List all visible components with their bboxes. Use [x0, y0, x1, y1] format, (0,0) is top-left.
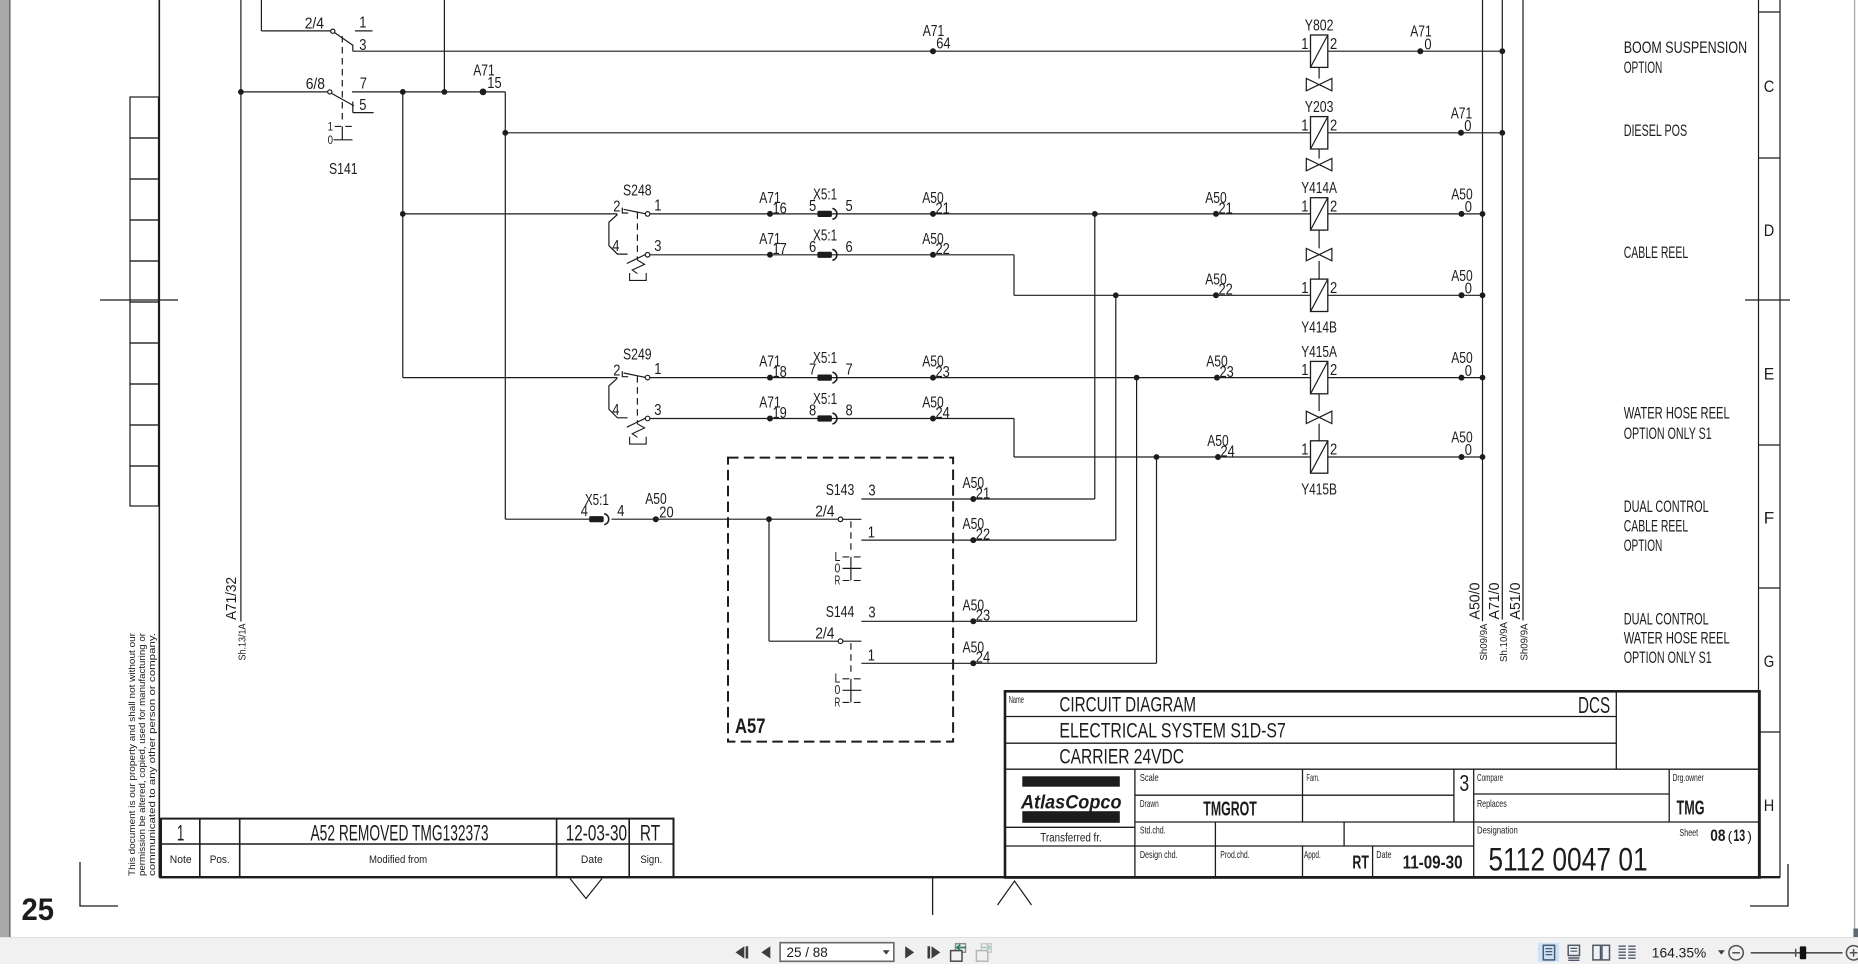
svg-text:22: 22 [976, 527, 990, 544]
bus A51/0 [1522, 0, 1524, 620]
svg-text:19: 19 [773, 405, 787, 422]
solenoid coil Y415A [1301, 344, 1337, 394]
svg-text:RT: RT [1352, 851, 1369, 872]
connector X5:1 pin 5 [809, 187, 853, 220]
svg-text:ELECTRICAL SYSTEM S1D-S7: ELECTRICAL SYSTEM S1D-S7 [1059, 719, 1285, 742]
label A50:23 [922, 354, 950, 381]
svg-text:Date: Date [581, 854, 603, 866]
svg-text:11-09-30: 11-09-30 [1403, 851, 1463, 872]
label A71:19 [759, 395, 787, 422]
svg-text:1: 1 [1301, 442, 1308, 459]
svg-text:CARRIER 24VDC: CARRIER 24VDC [1059, 745, 1184, 768]
svg-text:X5:1: X5:1 [813, 391, 837, 408]
svg-text:25 / 88: 25 / 88 [787, 945, 828, 960]
connector X5:1 pin 7 [809, 350, 853, 383]
svg-text:S144: S144 [826, 604, 855, 621]
svg-text:Y414A: Y414A [1301, 180, 1337, 197]
svg-text:2/4: 2/4 [305, 15, 324, 32]
svg-text:DUAL CONTROL: DUAL CONTROL [1624, 609, 1709, 628]
switch S141 pole 2/4 [305, 15, 373, 54]
svg-text:Sh.13/1A: Sh.13/1A [237, 624, 249, 661]
revision table [161, 819, 674, 878]
view-mode continuous facing [1619, 946, 1636, 958]
label A50:23 [963, 597, 991, 624]
svg-text:8: 8 [846, 403, 853, 420]
svg-text:Sh.10/9A: Sh.10/9A [1498, 622, 1510, 662]
svg-text:S141: S141 [329, 161, 358, 178]
svg-text:2: 2 [1330, 199, 1337, 216]
svg-text:164.35%: 164.35% [1652, 945, 1706, 960]
svg-text:1: 1 [654, 361, 661, 378]
valve symbol under Y203 [1318, 149, 1320, 159]
solenoid coil Y414A [1301, 180, 1337, 230]
label A50:21 [922, 190, 950, 217]
svg-text:1: 1 [868, 525, 875, 542]
wire: riser to S144 [768, 519, 770, 641]
svg-text:24: 24 [1221, 443, 1235, 460]
bottom-left corner trim mark [80, 862, 118, 906]
svg-text:8: 8 [809, 403, 816, 420]
svg-text:1: 1 [1301, 199, 1308, 216]
svg-text:CABLE REEL: CABLE REEL [1624, 243, 1689, 262]
view-mode facing [1593, 945, 1610, 960]
wire: S144 throw 3 out [861, 620, 1136, 622]
toolbar last-page button [928, 946, 941, 958]
svg-text:3: 3 [868, 483, 875, 500]
svg-text:24: 24 [976, 650, 990, 667]
svg-text:18: 18 [773, 364, 787, 381]
bus A50/0 [1482, 0, 1484, 621]
connector X5:1 pin 8 [809, 391, 853, 424]
svg-text:22: 22 [936, 241, 950, 258]
svg-text:1: 1 [1301, 117, 1308, 134]
label A50:23 [1206, 354, 1234, 381]
svg-text:22: 22 [1219, 282, 1233, 299]
view-mode single page (active) [1538, 943, 1559, 962]
svg-text:3: 3 [868, 605, 875, 622]
svg-text:1: 1 [654, 197, 661, 214]
svg-text:OPTION: OPTION [1624, 58, 1663, 77]
svg-text:(: ( [1728, 828, 1733, 844]
svg-text:G: G [1764, 652, 1775, 671]
bottom-right corner trim mark [1750, 864, 1788, 906]
svg-text:WATER HOSE REEL: WATER HOSE REEL [1624, 403, 1730, 422]
svg-text:CABLE REEL: CABLE REEL [1624, 516, 1689, 535]
fold mark caret (below title block) [998, 881, 1032, 905]
svg-text:2/4: 2/4 [815, 503, 834, 520]
solenoid coil Y802 [1301, 17, 1337, 67]
svg-text:6: 6 [846, 239, 853, 256]
svg-text:F: F [1764, 509, 1775, 528]
row letters C-H [1764, 77, 1775, 815]
svg-text:S143: S143 [826, 482, 855, 499]
property/permission fine print (rotated) [127, 633, 157, 876]
toolbar zoom-in [1846, 946, 1858, 960]
connector A50:0 [1459, 375, 1465, 381]
label A50:22 [963, 516, 991, 543]
svg-text:): ) [1747, 828, 1752, 844]
label A50:24 [1207, 433, 1235, 460]
svg-text:Y802: Y802 [1305, 17, 1334, 34]
svg-text:R: R [835, 694, 841, 709]
svg-text:Sign.: Sign. [640, 854, 662, 866]
svg-text:Transferred fr.: Transferred fr. [1040, 833, 1102, 845]
svg-text:0: 0 [328, 133, 334, 147]
viewer bottom toolbar [0, 937, 1858, 964]
wire: vertical from top to S141 pole1 [260, 0, 262, 31]
svg-text:2: 2 [613, 199, 620, 216]
svg-text:Compare: Compare [1477, 772, 1503, 784]
svg-text:2/4: 2/4 [815, 625, 834, 642]
svg-text:5: 5 [809, 198, 816, 215]
svg-text:4: 4 [581, 503, 588, 520]
svg-text:BOOM SUSPENSION: BOOM SUSPENSION [1624, 38, 1747, 57]
bus A71/0 [1501, 0, 1503, 620]
solenoid coil Y415B [1301, 441, 1337, 499]
svg-text:64: 64 [936, 36, 950, 53]
svg-text:This document is our property: This document is our property and shall … [127, 633, 137, 876]
wire: S143 throw 1 out [861, 539, 1115, 541]
view-mode continuous [1568, 945, 1579, 960]
svg-text:communicated to any other pers: communicated to any other person or comp… [147, 633, 157, 876]
svg-text:Sheet: Sheet [1679, 827, 1698, 839]
svg-text:R: R [835, 572, 841, 587]
svg-text:0: 0 [1424, 36, 1431, 53]
bottom centerline tick [932, 877, 934, 915]
svg-text:E: E [1764, 365, 1775, 384]
svg-text:TMG: TMG [1677, 797, 1705, 820]
connector A50:0 [1459, 211, 1465, 217]
connector A50 pin 20 [653, 516, 659, 522]
svg-text:2: 2 [613, 362, 620, 379]
svg-text:A50/0: A50/0 [1467, 583, 1483, 620]
svg-text:0: 0 [1464, 118, 1471, 135]
svg-text:Sh09/9A: Sh09/9A [1478, 624, 1490, 661]
svg-text:WATER HOSE REEL: WATER HOSE REEL [1624, 629, 1730, 648]
svg-text:A71/0: A71/0 [1487, 583, 1503, 620]
valve symbol between Y414A/Y414B [1318, 230, 1320, 248]
svg-text:Appd.: Appd. [1304, 849, 1321, 861]
S141 position indicator 1/0 [328, 119, 353, 147]
svg-text:3: 3 [654, 402, 661, 419]
wire: vertical bus x241 (to A71/32 off-sheet) [240, 0, 242, 622]
svg-text:Modified from: Modified from [369, 854, 427, 866]
svg-text:Drg.owner: Drg.owner [1673, 772, 1705, 784]
svg-text:DCS: DCS [1578, 692, 1610, 718]
svg-text:OPTION ONLY S1: OPTION ONLY S1 [1624, 424, 1712, 443]
label A50:22 [1205, 271, 1233, 298]
svg-text:23: 23 [1220, 364, 1234, 381]
svg-text:Name: Name [1009, 694, 1024, 706]
svg-text:AtlasCopco: AtlasCopco [1020, 792, 1121, 814]
toolbar previous-view icon [951, 944, 967, 961]
toolbar next-page button [905, 946, 914, 958]
svg-text:3: 3 [654, 238, 661, 255]
wire: S141 throw 3 to Y802 row [353, 50, 1503, 52]
svg-text:DUAL CONTROL: DUAL CONTROL [1624, 497, 1709, 516]
connector X5:1 pin 4 [581, 492, 625, 525]
svg-text:1: 1 [868, 648, 875, 665]
svg-text:2: 2 [1330, 280, 1337, 297]
svg-text:S249: S249 [623, 346, 652, 363]
svg-text:A52 REMOVED TMG132373: A52 REMOVED TMG132373 [311, 820, 489, 845]
right centerline mark [1745, 299, 1790, 301]
svg-text:5: 5 [359, 97, 366, 114]
svg-text:21: 21 [936, 200, 950, 217]
svg-text:7: 7 [846, 362, 853, 379]
wire: vertical from top to node at y92 [443, 0, 445, 92]
label A50:24 [922, 395, 950, 422]
svg-text:0: 0 [1465, 199, 1472, 216]
wire: S249-3 row [650, 418, 1014, 420]
svg-text:OPTION: OPTION [1624, 536, 1663, 555]
svg-text:5112 0047 01: 5112 0047 01 [1488, 842, 1647, 878]
svg-text:Y415B: Y415B [1301, 481, 1337, 498]
svg-text:OPTION ONLY S1: OPTION ONLY S1 [1624, 648, 1712, 667]
svg-text:X5:1: X5:1 [813, 227, 837, 244]
wire: down from A71:15 node to X5:1-4 row [504, 92, 506, 519]
switch S141 pole 6/8 [306, 36, 374, 124]
svg-text:A57: A57 [735, 714, 766, 738]
svg-text:15: 15 [487, 75, 501, 92]
svg-text:7: 7 [809, 362, 816, 379]
viewer left gray strip [0, 0, 9, 937]
switch S248 [609, 183, 662, 281]
svg-text:1: 1 [1301, 362, 1308, 379]
right row-letter column [1759, 0, 1781, 878]
svg-text:Pos.: Pos. [210, 854, 230, 866]
svg-text:1: 1 [359, 15, 366, 32]
svg-text:DIESEL POS: DIESEL POS [1624, 121, 1688, 140]
connector A71 pin 64 [930, 48, 936, 54]
connector A50:0 [1459, 292, 1465, 298]
toolbar prev-page button [761, 946, 770, 958]
toolbar first-page button [736, 946, 749, 958]
wire: feed into A57 box [612, 518, 839, 520]
connector A71:0 (Y802) [1417, 48, 1423, 54]
svg-text:Y415A: Y415A [1301, 344, 1337, 361]
svg-text:13: 13 [1733, 827, 1745, 845]
svg-text:2: 2 [1330, 442, 1337, 459]
switch S143 [815, 482, 875, 587]
connector X5:1 pin 6 [809, 227, 853, 260]
left centerline mark [100, 299, 178, 301]
svg-text:Std.chd.: Std.chd. [1140, 824, 1166, 836]
svg-text:Designation: Designation [1477, 825, 1518, 837]
toolbar zoom slider [1751, 946, 1843, 959]
svg-text:CIRCUIT DIAGRAM: CIRCUIT DIAGRAM [1059, 694, 1196, 717]
unit box A57 (dashed) [728, 458, 953, 742]
fold mark V (bottom) [570, 879, 602, 899]
label A50:22 [922, 231, 950, 258]
svg-text:permission be altered, copied,: permission be altered, copied, used for … [137, 633, 147, 876]
svg-text:Drawn: Drawn [1140, 798, 1159, 810]
svg-text:Fam.: Fam. [1306, 772, 1319, 784]
svg-text:2: 2 [1330, 117, 1337, 134]
wire: S248-3 row [650, 254, 1014, 256]
label A50:24 [963, 639, 991, 666]
svg-text:S248: S248 [623, 183, 652, 200]
label A50:21 [963, 475, 991, 502]
svg-text:7: 7 [360, 75, 367, 92]
drawing frame left border [158, 0, 160, 878]
wire: S144 throw 1 out [861, 662, 1156, 664]
svg-text:X5:1: X5:1 [813, 350, 837, 367]
frame fold-scale ladder (left edge) [130, 97, 159, 506]
svg-text:25: 25 [22, 891, 55, 927]
svg-text:Sh09/9A: Sh09/9A [1519, 624, 1531, 661]
wire: to S248 terminal 2 [403, 213, 618, 215]
svg-text:08: 08 [1710, 827, 1725, 845]
viewer right scrollbar edge [1854, 0, 1856, 937]
svg-text:24: 24 [936, 405, 950, 422]
svg-text:1: 1 [1301, 36, 1308, 53]
solenoid coil Y203 [1301, 99, 1337, 149]
svg-text:21: 21 [976, 485, 990, 502]
svg-text:C: C [1764, 77, 1775, 96]
solenoid coil Y414B [1301, 279, 1337, 337]
svg-text:23: 23 [936, 364, 950, 381]
svg-text:H: H [1764, 796, 1775, 815]
svg-text:0: 0 [1465, 442, 1472, 459]
svg-text:RT: RT [640, 820, 660, 845]
svg-text:6: 6 [809, 239, 816, 256]
toolbar page box [780, 943, 894, 962]
svg-text:Scale: Scale [1140, 772, 1159, 784]
svg-text:2: 2 [1330, 362, 1337, 379]
svg-text:Replaces: Replaces [1477, 798, 1507, 810]
Atlas Copco logo [1020, 776, 1121, 823]
label A71:18 [759, 354, 787, 381]
function description texts [1624, 38, 1747, 667]
svg-text:Note: Note [170, 854, 192, 866]
wire: S141 pole2 common from bus [241, 91, 328, 93]
svg-text:Design chd.: Design chd. [1140, 849, 1178, 861]
svg-text:A51/0: A51/0 [1508, 583, 1524, 620]
label A50:21 [1205, 190, 1233, 217]
wire: S249-1 to Y415A coil row [650, 377, 1483, 379]
switch S144 [815, 604, 875, 709]
wire: S141 throw 7 node row [352, 91, 505, 93]
svg-text:1: 1 [1301, 280, 1308, 297]
connector A50:0 [1459, 454, 1465, 460]
svg-text:16: 16 [773, 200, 787, 217]
svg-text:Y203: Y203 [1305, 99, 1334, 116]
valve symbol under Y802 [1318, 67, 1320, 78]
connector A71 pin 15 [480, 89, 487, 96]
svg-text:1: 1 [177, 820, 185, 845]
svg-text:Date: Date [1376, 849, 1391, 861]
wire: S143 throw 3 out [861, 498, 1094, 500]
label A71:16 [759, 190, 787, 217]
svg-text:Prod.chd.: Prod.chd. [1220, 849, 1249, 861]
svg-text:6/8: 6/8 [306, 76, 325, 93]
connector A71:0 (Y203) [1458, 130, 1464, 136]
svg-text:3: 3 [1459, 770, 1469, 796]
wire: to S249 terminal 2 [403, 377, 618, 379]
svg-text:2: 2 [1330, 36, 1337, 53]
svg-text:17: 17 [773, 241, 787, 258]
svg-text:D: D [1764, 221, 1775, 240]
svg-text:0: 0 [1465, 363, 1472, 380]
drawing frame bottom border [159, 876, 1780, 878]
svg-text:23: 23 [976, 608, 990, 625]
svg-text:A71/32: A71/32 [223, 577, 240, 620]
svg-text:21: 21 [1219, 200, 1233, 217]
title block [1005, 691, 1760, 877]
svg-text:12-03-30: 12-03-30 [566, 820, 627, 845]
wire: vertical to S248/S249 rows [402, 92, 404, 378]
svg-text:5: 5 [846, 198, 853, 215]
wire: Y203 coil row [505, 132, 1502, 134]
switch S249 [609, 346, 662, 444]
svg-text:Y414B: Y414B [1301, 320, 1337, 337]
label A71:17 [759, 231, 787, 258]
svg-text:X5:1: X5:1 [585, 492, 609, 509]
wire: S248-1 to Y414A coil row [650, 213, 1483, 215]
toolbar next-view icon (disabled) [976, 944, 991, 961]
svg-text:TMGROT: TMGROT [1203, 799, 1257, 821]
svg-text:X5:1: X5:1 [813, 187, 837, 204]
valve symbol between Y415A/Y415B [1318, 394, 1320, 411]
svg-text:0: 0 [1465, 281, 1472, 298]
svg-text:4: 4 [617, 503, 624, 520]
svg-text:1: 1 [328, 119, 334, 133]
toolbar zoom-out [1729, 946, 1743, 960]
